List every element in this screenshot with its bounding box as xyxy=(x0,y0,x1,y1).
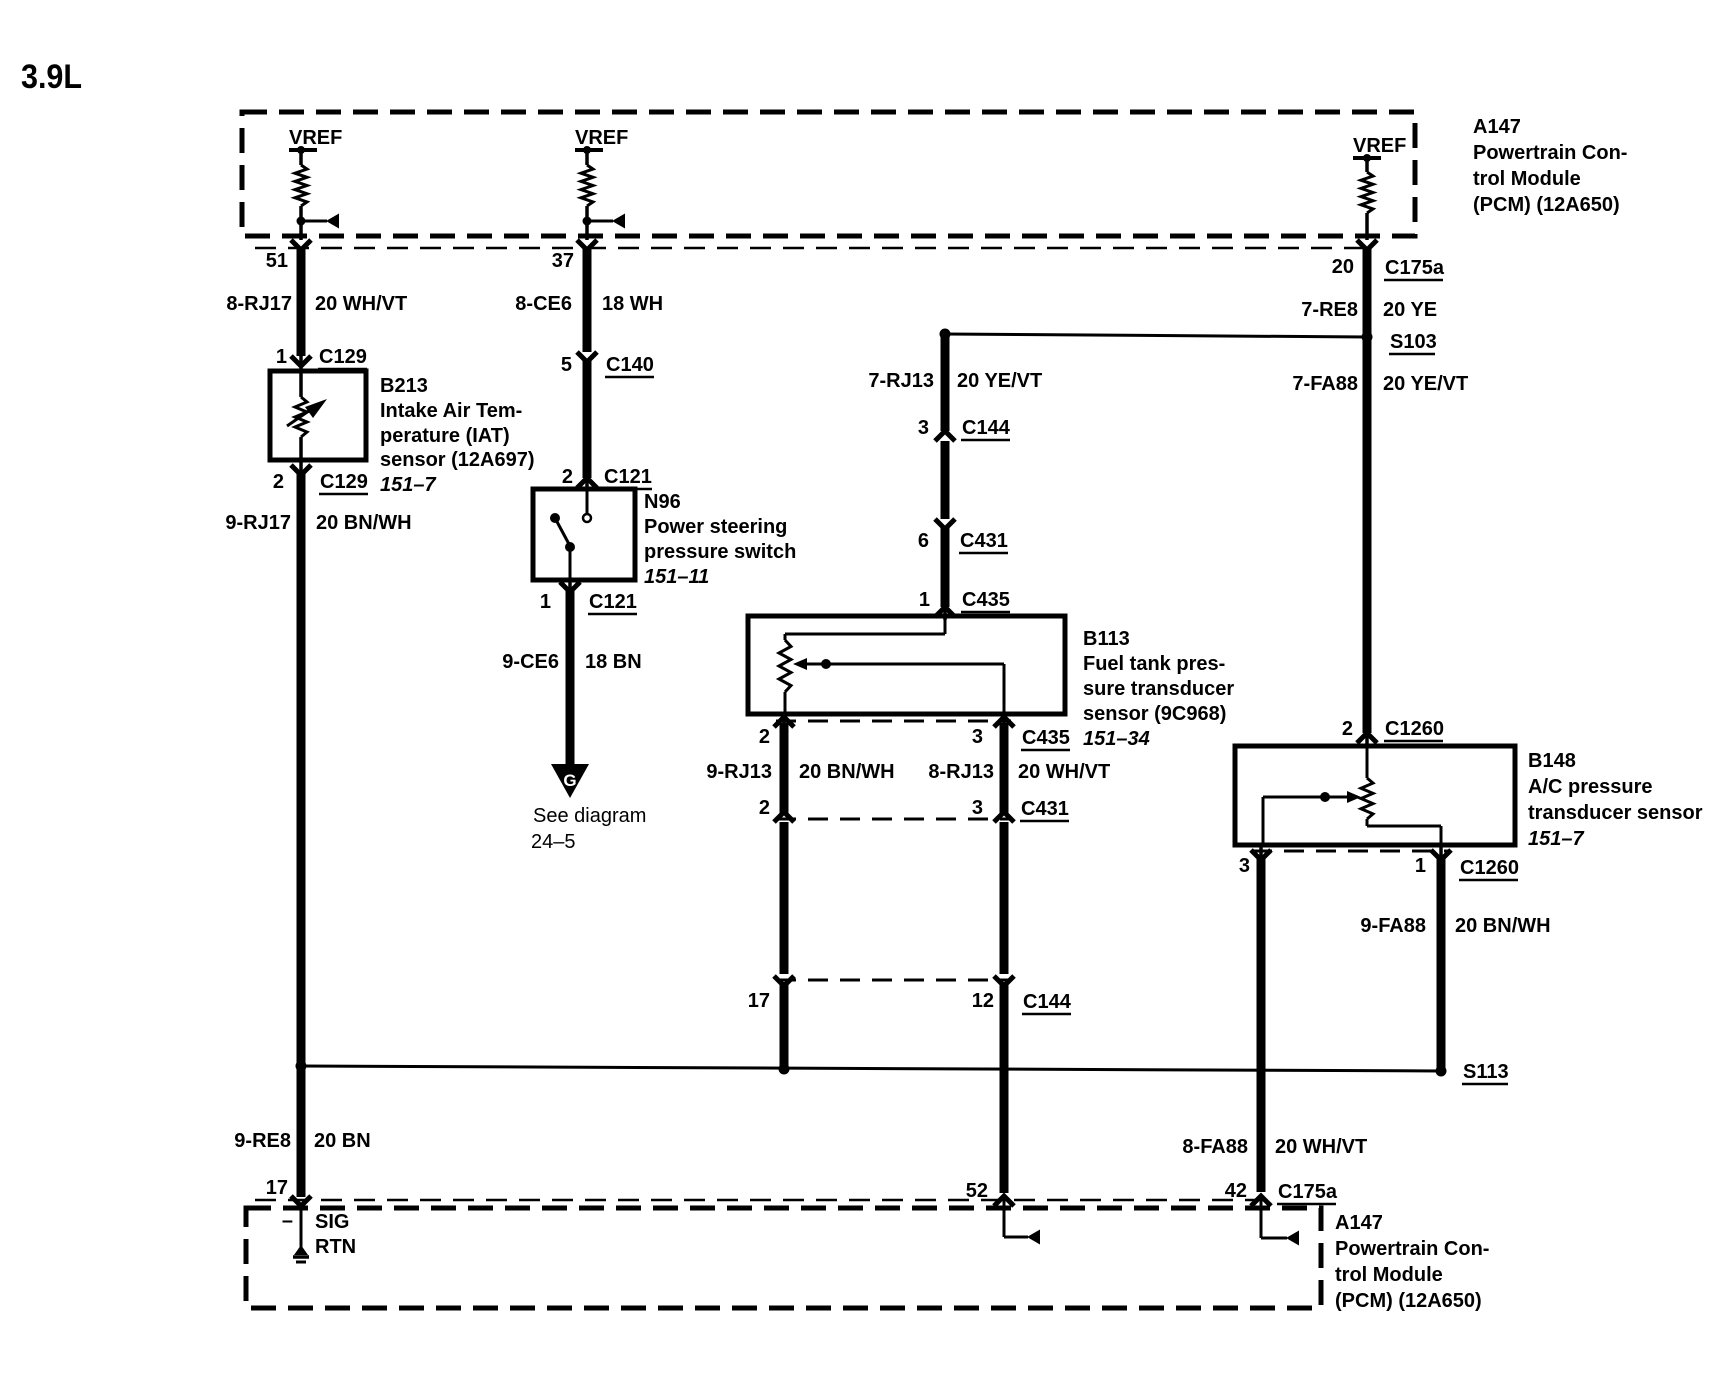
svg-text:1: 1 xyxy=(540,591,551,613)
connector arrow C144 pin 12 xyxy=(994,976,1014,986)
svg-text:9-CE6: 9-CE6 xyxy=(502,651,559,673)
connector arrow PCM pin 42 xyxy=(1251,1196,1271,1206)
svg-text:C144: C144 xyxy=(1023,991,1072,1013)
svg-text:trol Module: trol Module xyxy=(1335,1264,1443,1286)
svg-text:151–7: 151–7 xyxy=(380,474,436,496)
svg-text:sure transducer: sure transducer xyxy=(1083,678,1234,700)
node S113 horizontal wire xyxy=(301,1066,1441,1071)
connector C175a line (top) xyxy=(255,247,1367,250)
wire into B113 xyxy=(943,606,947,620)
wire C140 to N96 xyxy=(583,360,592,478)
svg-text:See diagram: See diagram xyxy=(533,805,646,827)
svg-text:20 WH/VT: 20 WH/VT xyxy=(1275,1136,1367,1158)
junction dot at top of 7-RJ13 xyxy=(940,329,951,340)
connector arrow C144 pin 3 xyxy=(935,431,955,441)
svg-text:9-RJ13: 9-RJ13 xyxy=(706,761,772,783)
svg-text:perature (IAT): perature (IAT) xyxy=(380,425,510,447)
connector arrow C431 pin 3 xyxy=(994,812,1014,822)
svg-text:C129: C129 xyxy=(319,346,367,368)
connector arrow C1260 pin 1 xyxy=(1431,850,1451,860)
wire 9-FA88 20 BN/WH xyxy=(1439,843,1443,857)
svg-text:20 WH/VT: 20 WH/VT xyxy=(315,293,407,315)
svg-text:G: G xyxy=(563,771,576,790)
wire 9-CE6 18 BN xyxy=(568,578,572,592)
svg-text:1: 1 xyxy=(919,589,930,611)
wire 7-RE8 20 YE xyxy=(1363,248,1372,733)
svg-text:Powertrain Con-: Powertrain Con- xyxy=(1473,142,1627,164)
svg-text:151–34: 151–34 xyxy=(1083,728,1150,750)
svg-text:C175a: C175a xyxy=(1385,257,1445,279)
svg-text:C431: C431 xyxy=(960,530,1008,552)
svg-text:2: 2 xyxy=(759,726,770,748)
connector arrow C431 pin 6 xyxy=(935,519,955,529)
svg-text:SIG: SIG xyxy=(315,1211,349,1233)
svg-text:3: 3 xyxy=(918,417,929,439)
svg-text:51: 51 xyxy=(266,250,288,272)
node S103 dot xyxy=(1362,332,1373,343)
svg-text:2: 2 xyxy=(562,466,573,488)
svg-text:7-RE8: 7-RE8 xyxy=(1301,299,1358,321)
node S103 horizontal wire xyxy=(945,334,1367,337)
connector arrow C144 pin 17 xyxy=(774,976,794,986)
connector C431 dashed line xyxy=(776,818,1011,821)
svg-text:N96: N96 xyxy=(644,491,681,513)
svg-text:20 BN/WH: 20 BN/WH xyxy=(316,512,412,534)
svg-text:S113: S113 xyxy=(1463,1061,1509,1083)
svg-text:20 BN/WH: 20 BN/WH xyxy=(1455,915,1551,937)
connector arrow at PCM pin 20 xyxy=(1357,240,1377,250)
svg-text:2: 2 xyxy=(759,797,770,819)
wire 8-RJ17 20 WH/VT xyxy=(297,248,306,356)
svg-text:C175a: C175a xyxy=(1278,1181,1338,1203)
connector arrow C121 pin 2 xyxy=(577,478,597,488)
wire C144 pin17 to splice xyxy=(780,982,789,1069)
svg-text:trol Module: trol Module xyxy=(1473,168,1581,190)
wire C431 to C435 xyxy=(941,527,950,607)
svg-text:1: 1 xyxy=(276,346,287,368)
svg-text:transducer sensor: transducer sensor xyxy=(1528,802,1703,824)
svg-text:5: 5 xyxy=(561,354,572,376)
svg-text:C435: C435 xyxy=(962,589,1010,611)
connector arrow C121 pin 1 xyxy=(560,582,580,592)
ground (signal return) xyxy=(300,1204,303,1248)
svg-text:18 BN: 18 BN xyxy=(585,651,642,673)
svg-text:Power steering: Power steering xyxy=(644,516,787,538)
svg-text:C121: C121 xyxy=(604,466,652,488)
svg-text:52: 52 xyxy=(966,1180,988,1202)
svg-text:A147: A147 xyxy=(1473,116,1521,138)
ground G symbol xyxy=(551,764,589,798)
svg-text:20: 20 xyxy=(1332,256,1354,278)
connector arrow PCM pin 52 xyxy=(994,1196,1014,1206)
connector C144 dashed line xyxy=(776,979,1011,982)
svg-text:2: 2 xyxy=(1342,718,1353,740)
wire 8-RJ13 20 WH/VT xyxy=(1002,712,1006,724)
svg-text:3: 3 xyxy=(1239,855,1250,877)
junction dot left wire S113 xyxy=(296,1061,307,1072)
svg-text:Fuel tank pres-: Fuel tank pres- xyxy=(1083,653,1225,675)
svg-text:37: 37 xyxy=(552,250,574,272)
connector arrow PCM pin 17 xyxy=(291,1196,311,1206)
connector arrow C431 pin 2 xyxy=(774,812,794,822)
svg-text:20 BN: 20 BN xyxy=(314,1130,371,1152)
svg-text:C431: C431 xyxy=(1021,798,1069,820)
wire 9-RJ13 20 BN/WH xyxy=(782,712,786,724)
svg-text:C1260: C1260 xyxy=(1385,718,1444,740)
connector arrow C1260 pin 3 xyxy=(1251,850,1271,860)
svg-text:C140: C140 xyxy=(606,354,654,376)
svg-text:A/C pressure: A/C pressure xyxy=(1528,776,1653,798)
svg-text:B148: B148 xyxy=(1528,750,1576,772)
svg-text:Intake Air Tem-: Intake Air Tem- xyxy=(380,400,522,422)
svg-text:7-RJ13: 7-RJ13 xyxy=(868,370,934,392)
svg-text:1: 1 xyxy=(1415,855,1426,877)
connector arrow C140 pin 5 xyxy=(577,352,597,362)
PCM module A147 box (bottom) xyxy=(246,1208,1321,1308)
power steering pressure switch N96 box xyxy=(533,489,635,580)
svg-text:20 YE/VT: 20 YE/VT xyxy=(1383,373,1468,395)
svg-text:sensor (9C968): sensor (9C968) xyxy=(1083,703,1226,725)
node S113 dot xyxy=(1436,1066,1447,1077)
svg-text:3: 3 xyxy=(972,726,983,748)
wire C144 pin12 to PCM pin 52 xyxy=(1000,982,1009,1193)
connector C435 dashed line xyxy=(776,720,1011,723)
svg-text:17: 17 xyxy=(748,990,770,1012)
svg-text:9-RE8: 9-RE8 xyxy=(234,1130,291,1152)
svg-text:S103: S103 xyxy=(1390,331,1437,353)
junction dot on S113 line xyxy=(779,1064,790,1075)
connector arrow C435 pin 3 xyxy=(994,717,1014,727)
svg-text:VREF: VREF xyxy=(1353,135,1406,157)
svg-text:7-FA88: 7-FA88 xyxy=(1292,373,1358,395)
PCM internal arrow (pin 42) xyxy=(1260,1198,1263,1238)
svg-text:20 WH/VT: 20 WH/VT xyxy=(1018,761,1110,783)
svg-text:–: – xyxy=(282,1210,293,1232)
wire C144 to C431 xyxy=(941,441,950,519)
connector arrow C129 pin 1 xyxy=(291,356,311,366)
svg-text:8-FA88: 8-FA88 xyxy=(1182,1136,1248,1158)
svg-text:9-RJ17: 9-RJ17 xyxy=(225,512,291,534)
svg-text:8-RJ13: 8-RJ13 xyxy=(928,761,994,783)
svg-text:2: 2 xyxy=(273,471,284,493)
connector arrow C435 pin 1 xyxy=(935,607,955,617)
connector C175a line (bottom) xyxy=(255,1199,1261,1202)
svg-text:3: 3 xyxy=(972,797,983,819)
connector arrow C129 pin 2 xyxy=(291,465,311,475)
connector C1260 dashed line xyxy=(1252,850,1450,853)
svg-text:C121: C121 xyxy=(589,591,637,613)
svg-text:8-RJ17: 8-RJ17 xyxy=(226,293,292,315)
svg-text:(PCM) (12A650): (PCM) (12A650) xyxy=(1473,194,1620,216)
svg-text:17: 17 xyxy=(266,1177,288,1199)
svg-text:12: 12 xyxy=(972,990,994,1012)
wire 8-FA88 20 WH/VT xyxy=(1259,843,1263,857)
fuel tank pressure transducer B113 box with potentiometer xyxy=(748,616,1065,714)
svg-text:VREF: VREF xyxy=(289,127,342,149)
svg-text:C129: C129 xyxy=(320,471,368,493)
svg-text:20 YE: 20 YE xyxy=(1383,299,1437,321)
svg-text:sensor (12A697): sensor (12A697) xyxy=(380,449,535,471)
svg-text:6: 6 xyxy=(918,530,929,552)
svg-text:B113: B113 xyxy=(1083,628,1130,650)
svg-text:18 WH: 18 WH xyxy=(602,293,663,315)
svg-text:RTN: RTN xyxy=(315,1236,356,1258)
svg-text:42: 42 xyxy=(1225,1180,1247,1202)
wire 7-RJ13 20 YE/VT xyxy=(941,334,950,431)
svg-text:C1260: C1260 xyxy=(1460,857,1519,879)
svg-text:8-CE6: 8-CE6 xyxy=(515,293,572,315)
connector arrow at PCM pin 51 xyxy=(291,240,311,250)
svg-text:20 BN/WH: 20 BN/WH xyxy=(799,761,895,783)
wire 8-CE6 18 WH xyxy=(583,248,592,352)
svg-text:Powertrain Con-: Powertrain Con- xyxy=(1335,1238,1489,1260)
svg-text:A147: A147 xyxy=(1335,1212,1383,1234)
PCM module A147 box (top) xyxy=(242,112,1415,236)
wire C431 to C144 (right) xyxy=(1000,822,1009,974)
IAT sensor B213 box with thermistor xyxy=(270,371,366,460)
svg-text:(PCM) (12A650): (PCM) (12A650) xyxy=(1335,1290,1482,1312)
connector arrow C435 pin 2 xyxy=(774,717,794,727)
svg-text:24–5: 24–5 xyxy=(531,831,576,853)
svg-text:20 YE/VT: 20 YE/VT xyxy=(957,370,1042,392)
svg-text:C435: C435 xyxy=(1022,727,1070,749)
PCM internal arrow (pin 52) xyxy=(1003,1198,1006,1237)
svg-text:VREF: VREF xyxy=(575,127,628,149)
svg-text:C144: C144 xyxy=(962,417,1011,439)
svg-text:pressure switch: pressure switch xyxy=(644,541,796,563)
svg-text:151–11: 151–11 xyxy=(644,566,709,588)
wire 9-RJ17 20 BN/WH xyxy=(299,458,303,473)
A/C pressure transducer B148 box with potentiometer xyxy=(1235,746,1515,845)
svg-text:9-FA88: 9-FA88 xyxy=(1360,915,1426,937)
svg-text:3.9L: 3.9L xyxy=(21,58,82,96)
connector arrow C1260 pin 2 xyxy=(1357,733,1377,743)
svg-text:B213: B213 xyxy=(380,375,428,397)
svg-text:151–7: 151–7 xyxy=(1528,828,1584,850)
connector arrow at PCM pin 37 xyxy=(577,240,597,250)
wire C431 to C144 (left) xyxy=(780,822,789,974)
